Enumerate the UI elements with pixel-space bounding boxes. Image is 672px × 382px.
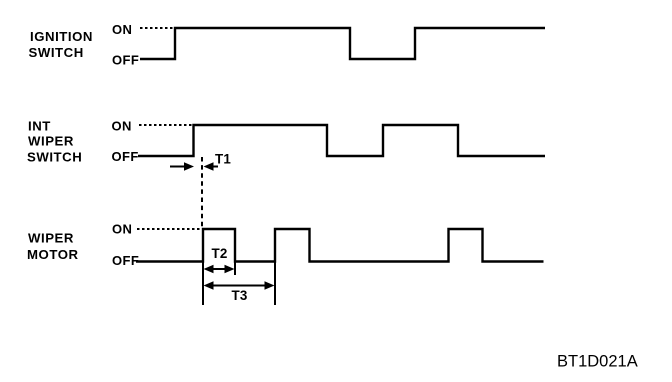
svg-text:WIPER: WIPER <box>28 134 74 149</box>
svg-text:BT1D021A: BT1D021A <box>557 352 638 370</box>
extension line below pulse1 falling edge <box>234 262 236 276</box>
T1 left arrow <box>170 166 185 168</box>
waveform wiper motor <box>136 229 544 262</box>
svg-text:OFF: OFF <box>112 53 139 68</box>
dotted ON leader (int wiper switch) <box>139 124 193 126</box>
dashed vertical reference line at T1 <box>201 157 203 228</box>
T1 right arrow <box>212 166 218 168</box>
waveform int wiper switch <box>138 125 545 156</box>
svg-text:SWITCH: SWITCH <box>29 45 84 60</box>
svg-text:ON: ON <box>112 119 132 134</box>
svg-text:OFF: OFF <box>112 253 139 268</box>
svg-text:ON: ON <box>112 22 132 37</box>
dotted ON leader (ignition) <box>140 27 175 29</box>
T2 dimension arrow <box>209 268 229 270</box>
svg-text:INT: INT <box>28 119 51 134</box>
svg-text:T2: T2 <box>212 246 228 261</box>
dotted ON leader (wiper motor) <box>137 228 201 230</box>
svg-text:MOTOR: MOTOR <box>27 247 79 262</box>
svg-text:T1: T1 <box>215 152 231 167</box>
extension line below pulse1 rising edge <box>202 262 204 306</box>
svg-text:WIPER: WIPER <box>28 231 74 246</box>
waveform ignition switch <box>140 28 545 59</box>
svg-text:ON: ON <box>112 221 132 236</box>
extension line below pulse2 rising edge <box>274 262 276 306</box>
svg-text:OFF: OFF <box>112 149 139 164</box>
svg-text:IGNITION: IGNITION <box>30 29 93 44</box>
T3 dimension arrow <box>209 285 269 287</box>
svg-text:T3: T3 <box>232 288 248 303</box>
svg-text:SWITCH: SWITCH <box>27 150 82 165</box>
